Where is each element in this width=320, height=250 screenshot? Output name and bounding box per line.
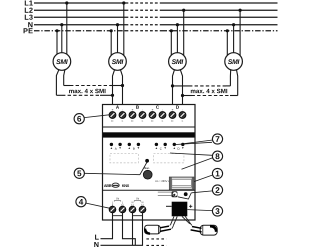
supply terminals row bbox=[109, 206, 146, 213]
mains line L3 bbox=[34, 16, 278, 18]
wires M3 to mains bbox=[171, 10, 183, 56]
bus terminal stub bbox=[166, 205, 172, 207]
motor M2 SMI drive bbox=[109, 53, 127, 71]
Us bracket left bbox=[114, 201, 121, 202]
wire terminal 2 bridge bbox=[123, 212, 136, 245]
label max. 4 x SMI left bbox=[69, 89, 105, 93]
label N bbox=[28, 22, 32, 27]
ABB logo bbox=[104, 184, 111, 187]
callout 7 bbox=[176, 134, 223, 145]
label max. 4 x SMI right bbox=[191, 89, 227, 93]
label L3 bbox=[25, 15, 33, 20]
junction dots left pair bbox=[111, 84, 124, 97]
actuator U1 body bbox=[103, 105, 196, 221]
motor M1 SMI drive bbox=[53, 53, 71, 71]
manual zone dashed A/B bbox=[110, 154, 138, 163]
wire L to terminal 1 bbox=[101, 212, 113, 239]
M1 SMI cable down bbox=[56, 70, 65, 96]
channel letter D bbox=[176, 106, 179, 109]
junction dots right pair bbox=[171, 84, 184, 97]
polarity marks bbox=[112, 109, 183, 111]
right pair rail bottom bbox=[183, 95, 238, 97]
wires M4 to mains bbox=[227, 10, 240, 56]
left pair rail top bbox=[64, 85, 123, 87]
programming button bbox=[172, 191, 178, 197]
callout 8 bbox=[170, 151, 223, 169]
mains line L2 bbox=[34, 9, 278, 11]
node taps M2 bbox=[110, 1, 126, 32]
M3 SMI cable to terminals D bbox=[173, 70, 183, 112]
SMI terminals row bbox=[109, 112, 186, 119]
motor M3 SMI drive bbox=[169, 53, 187, 71]
M2 SMI cable to terminals A bbox=[113, 70, 123, 112]
node taps M4 bbox=[226, 9, 242, 33]
channel letter B bbox=[136, 106, 139, 109]
channel LEDs bbox=[110, 143, 185, 146]
left pair rail bottom bbox=[56, 94, 112, 96]
front black bar bbox=[103, 132, 195, 137]
button slot lines bbox=[158, 192, 172, 195]
manual button bbox=[143, 170, 152, 179]
wire N to terminal 4 bbox=[101, 212, 143, 245]
label L2 bbox=[25, 8, 33, 13]
manual zone dashed C/D bbox=[154, 154, 184, 163]
bus dashes bottom bbox=[146, 244, 166, 246]
pair link bracket L bbox=[113, 213, 123, 216]
label PE bbox=[24, 28, 33, 33]
bus connection terminal bbox=[172, 202, 188, 217]
node taps M3 bbox=[170, 9, 186, 33]
slider dot bbox=[145, 159, 149, 163]
panel divider bbox=[103, 189, 196, 191]
channel letter A bbox=[116, 106, 119, 109]
callout 4 bbox=[76, 197, 110, 209]
bus dashes top bbox=[146, 238, 166, 240]
motor M4 SMI drive bbox=[225, 53, 243, 71]
callout 1 bbox=[194, 168, 223, 181]
KNX mark bbox=[122, 184, 129, 187]
label L1 bbox=[25, 0, 33, 5]
callout 2 bbox=[191, 185, 222, 195]
Us bracket right bbox=[134, 201, 141, 202]
bus cable outgoing bbox=[191, 225, 218, 235]
callout 3 bbox=[188, 206, 223, 216]
wires M1 to mains bbox=[57, 3, 67, 56]
slider stem bbox=[140, 162, 147, 175]
mains line PE bbox=[34, 30, 278, 32]
plus mark bbox=[189, 205, 192, 208]
wire terminal 3 down bbox=[132, 212, 134, 245]
pair link bracket N bbox=[133, 213, 143, 216]
terminal block line bbox=[103, 126, 196, 128]
mains line N bbox=[34, 24, 278, 26]
label N bbox=[94, 242, 98, 247]
programming LED bbox=[184, 192, 188, 196]
channel letter C bbox=[156, 105, 159, 108]
LED labels bbox=[111, 147, 184, 149]
terminal sublabels bbox=[112, 120, 184, 122]
bus cable incoming bbox=[145, 224, 174, 234]
tiny Man. label bbox=[144, 167, 149, 169]
node taps M1 bbox=[55, 1, 68, 32]
callout 5 bbox=[74, 168, 140, 178]
label L bbox=[95, 235, 99, 240]
supply labels bbox=[112, 198, 144, 206]
wires M2 to mains bbox=[111, 3, 124, 56]
LED flag outline bbox=[178, 193, 192, 199]
label holder 1 bbox=[169, 177, 193, 190]
bus wires to cables bbox=[171, 216, 192, 225]
i-bus oval bbox=[112, 183, 119, 187]
callout 6 bbox=[74, 114, 109, 124]
Un rating bbox=[155, 180, 171, 182]
M4 SMI cable down bbox=[230, 70, 237, 96]
mains line L1 bbox=[34, 2, 278, 4]
right pair rail top bbox=[173, 85, 231, 87]
